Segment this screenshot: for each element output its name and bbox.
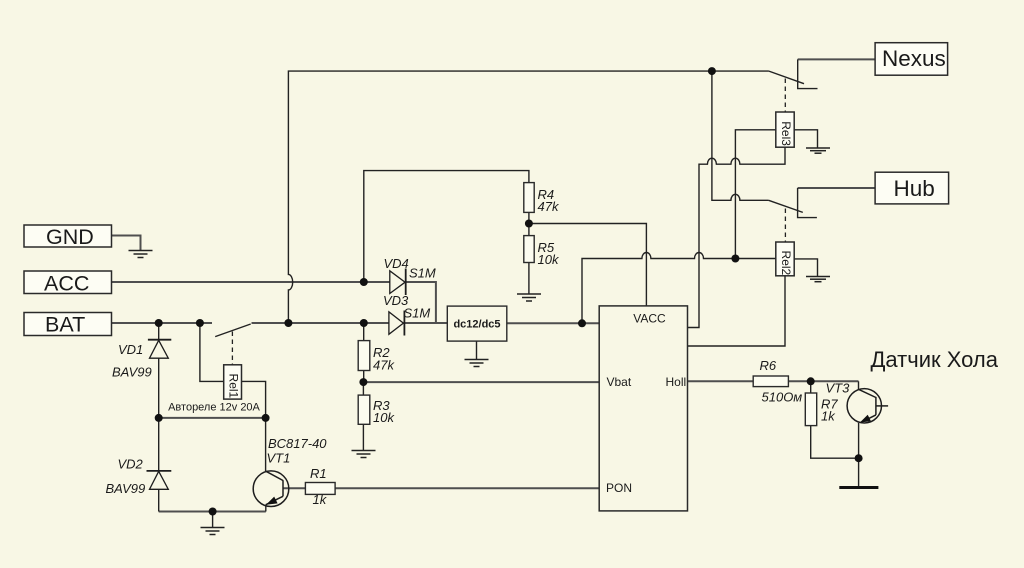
svg-text:Vbat: Vbat (607, 375, 632, 389)
svg-text:Rel3: Rel3 (779, 121, 793, 146)
svg-text:Nexus: Nexus (882, 46, 946, 71)
svg-text:47k: 47k (373, 358, 395, 373)
svg-text:Датчик Хола: Датчик Хола (871, 347, 999, 372)
svg-text:VD1: VD1 (118, 342, 143, 357)
svg-text:dc12/dc5: dc12/dc5 (453, 319, 500, 331)
svg-text:510Ом: 510Ом (762, 390, 803, 405)
svg-text:ACC: ACC (44, 272, 89, 296)
svg-text:BAV99: BAV99 (112, 365, 152, 380)
svg-text:VACC: VACC (633, 312, 666, 326)
svg-text:S1M: S1M (404, 306, 431, 321)
svg-text:R6: R6 (760, 358, 777, 373)
svg-text:10k: 10k (538, 252, 560, 267)
svg-text:Rel1: Rel1 (227, 374, 241, 399)
svg-text:VD4: VD4 (384, 256, 409, 271)
svg-text:47k: 47k (538, 199, 560, 214)
svg-text:BAT: BAT (45, 313, 85, 337)
svg-text:Holl: Holl (666, 375, 687, 389)
svg-text:1k: 1k (821, 409, 836, 424)
svg-text:VT3: VT3 (826, 381, 851, 396)
svg-text:Автореле 12v 20A: Автореле 12v 20A (168, 402, 260, 414)
svg-text:VD2: VD2 (118, 457, 144, 472)
svg-text:Hub: Hub (894, 176, 935, 201)
svg-text:10k: 10k (373, 410, 395, 425)
svg-text:1k: 1k (313, 492, 328, 507)
svg-text:S1M: S1M (409, 266, 436, 281)
svg-text:PON: PON (606, 481, 632, 495)
svg-text:BAV99: BAV99 (106, 481, 146, 496)
svg-text:R1: R1 (310, 466, 327, 481)
svg-text:VT1: VT1 (267, 451, 291, 466)
svg-text:BC817-40: BC817-40 (268, 436, 327, 451)
svg-text:Rel2: Rel2 (779, 251, 793, 276)
svg-text:GND: GND (46, 225, 94, 249)
